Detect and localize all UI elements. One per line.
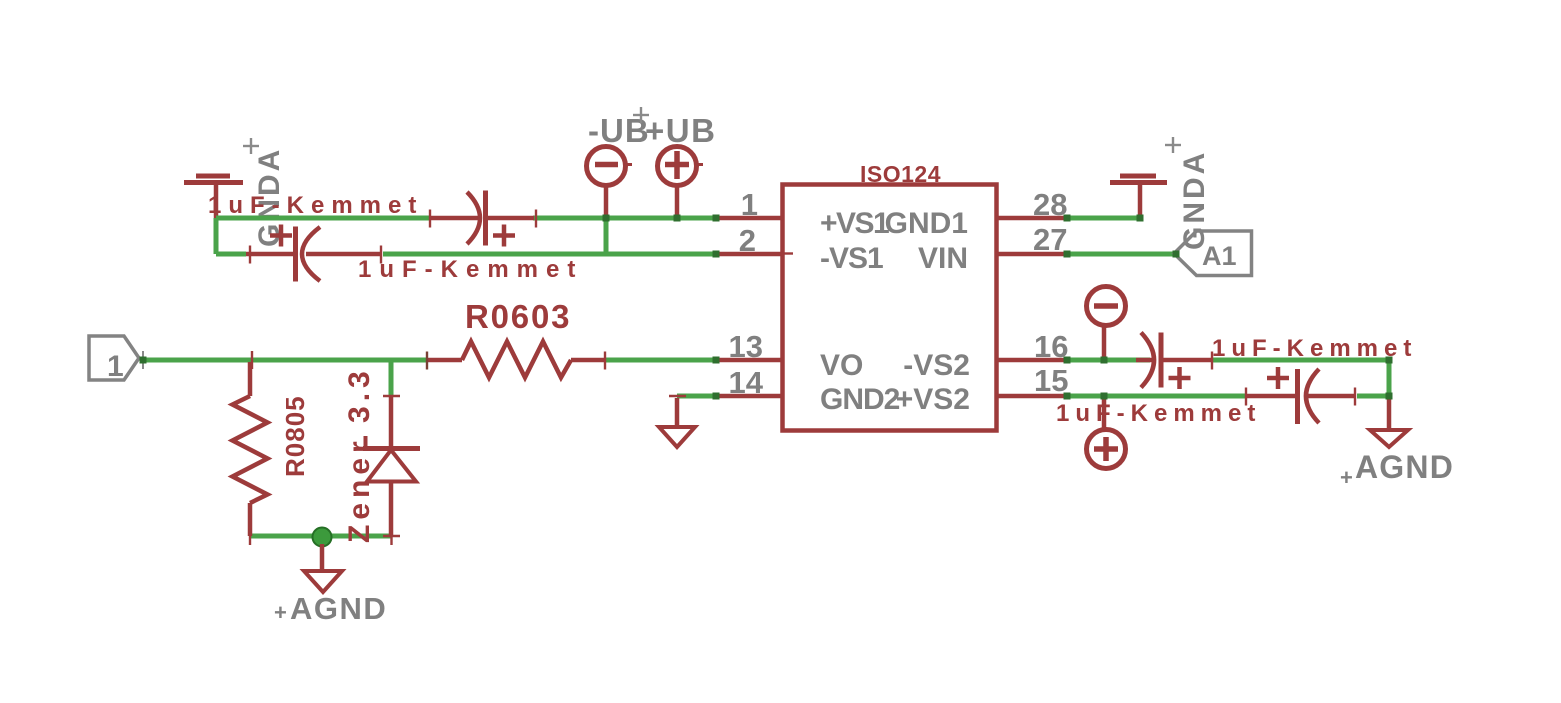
supply -UB symbol <box>587 147 633 219</box>
resistor R0805 <box>233 362 268 536</box>
svg-text:AGND: AGND <box>290 591 387 626</box>
capacitor C4 right pin cross <box>1354 388 1356 406</box>
capacitor C3 right pin cross <box>1211 352 1213 370</box>
ground AGND right stub <box>1387 398 1392 430</box>
svg-text:13: 13 <box>729 329 763 364</box>
svg-text:R0603: R0603 <box>465 298 571 335</box>
ground pin14 stub <box>675 398 680 427</box>
ground GNDA right origin cross <box>1165 137 1181 153</box>
svg-text:1uF-Kemmet: 1uF-Kemmet <box>208 192 423 219</box>
wire net row2 left segment <box>216 252 246 257</box>
svg-text:28: 28 <box>1033 187 1067 222</box>
resistor R0805 bottom pin cross <box>249 528 251 545</box>
junction node on bottom wire <box>313 528 332 547</box>
svg-text:VO: VO <box>820 349 863 382</box>
ground pin14 symbol <box>659 427 695 447</box>
svg-text:+VS1: +VS1 <box>820 207 889 240</box>
wire vertical left joining row1 row2 <box>214 218 219 254</box>
capacitor C2 1uF-Kemmet (row2) <box>246 225 381 282</box>
supply minus right symbol <box>1087 287 1126 361</box>
svg-text:14: 14 <box>729 365 764 400</box>
svg-text:+UB: +UB <box>645 112 716 149</box>
diode D1 bottom pin cross <box>383 535 400 537</box>
IC U1 pin 27 stub <box>996 252 1067 257</box>
capacitor C1 left pin cross <box>429 210 431 228</box>
ground AGND left stub <box>320 544 325 571</box>
svg-text:15: 15 <box>1034 363 1068 398</box>
IC U1 pin 1 stub <box>716 216 783 221</box>
wire net row1 left segment <box>216 216 430 221</box>
svg-text:2: 2 <box>739 223 756 258</box>
svg-text:1uF-Kemmet: 1uF-Kemmet <box>1056 400 1261 427</box>
input flag 1 <box>89 336 143 383</box>
svg-text:+VS2: +VS2 <box>896 383 970 416</box>
svg-text:ISO124: ISO124 <box>860 161 941 187</box>
IC U1 pin 2 tick <box>784 252 793 254</box>
wire net row27 <box>1067 252 1176 257</box>
svg-text:+: + <box>1340 465 1353 490</box>
ground pin14 pin cross <box>669 395 686 397</box>
ground GNDA left origin cross <box>243 138 259 154</box>
wire net bottom row5 <box>250 534 392 539</box>
capacitor C1 pin cross <box>535 210 537 228</box>
svg-text:GND1: GND1 <box>885 207 968 240</box>
svg-text:-VS1: -VS1 <box>820 242 883 275</box>
resistor R0603 left pin cross <box>426 352 428 370</box>
IC U1 pin 15 stub <box>996 394 1067 399</box>
IC U1 pin 16 stub <box>996 358 1067 363</box>
wire net row4 pin14 <box>677 394 716 399</box>
wire vertical right joining row16 row15 <box>1387 360 1392 396</box>
svg-text:A1: A1 <box>1202 241 1237 271</box>
resistor R0603 <box>427 342 605 378</box>
svg-text:AGND: AGND <box>1355 449 1454 485</box>
supply -UB origin cross <box>633 107 649 123</box>
wire vertical -UB to row2 <box>604 218 609 254</box>
IC U1 ISO124 body <box>783 185 997 431</box>
wire net row15 right segment <box>1357 394 1389 399</box>
label flag A1 <box>1174 231 1252 276</box>
ground AGND right symbol <box>1370 430 1408 447</box>
node dark joints <box>140 215 1393 400</box>
ground GNDA left symbol <box>184 176 243 218</box>
IC U1 pin 2 stub <box>716 252 783 257</box>
IC U1 pin 14 stub <box>716 394 783 399</box>
wire net row16 right segment <box>1212 358 1389 363</box>
ground GNDA right symbol <box>1110 176 1167 218</box>
svg-text:-VS2: -VS2 <box>903 349 970 382</box>
svg-text:VIN: VIN <box>918 242 968 275</box>
svg-text:27: 27 <box>1033 222 1067 257</box>
svg-text:Zener 3.3: Zener 3.3 <box>343 366 376 543</box>
capacitor C4 left pin cross <box>1245 388 1247 406</box>
wire net row3 right segment <box>605 358 716 363</box>
wire net row28 <box>1067 216 1140 221</box>
svg-text:GND2: GND2 <box>820 383 900 416</box>
IC U1 pin 28 stub <box>996 216 1067 221</box>
capacitor C3 1uF-Kemmet (row16) <box>1136 333 1212 390</box>
svg-text:1uF-Kemmet: 1uF-Kemmet <box>358 256 583 283</box>
IC U1 pin 13 stub <box>716 358 783 363</box>
capacitor C4 1uF-Kemmet (row15) <box>1246 367 1356 424</box>
wire net row2 right segment <box>383 252 716 257</box>
svg-text:R0805: R0805 <box>280 395 310 477</box>
supply +UB symbol <box>658 147 704 219</box>
ground AGND left symbol <box>304 571 342 592</box>
wire net row16 left segment <box>1067 358 1150 363</box>
svg-text:16: 16 <box>1034 329 1068 364</box>
supply plus right symbol <box>1087 396 1126 469</box>
svg-text:+: + <box>274 600 287 625</box>
wire net row15 left segment <box>1067 394 1246 399</box>
diode D1 zener 3.3 <box>363 396 420 536</box>
svg-text:1: 1 <box>107 350 124 383</box>
wire net row1 right segment <box>533 216 716 221</box>
capacitor C1 1uF-Kemmet (row1) <box>430 191 534 247</box>
wire net row3 input segment <box>141 358 427 363</box>
capacitor C2 left pin cross <box>249 246 251 264</box>
resistor R0603 right pin cross <box>604 352 606 370</box>
diode D1 top pin cross <box>383 395 400 397</box>
capacitor C2 right pin cross <box>380 246 382 264</box>
resistor R0805 top pin cross <box>251 351 253 369</box>
wire vertical zener branch <box>389 360 394 396</box>
svg-text:1: 1 <box>741 187 758 222</box>
